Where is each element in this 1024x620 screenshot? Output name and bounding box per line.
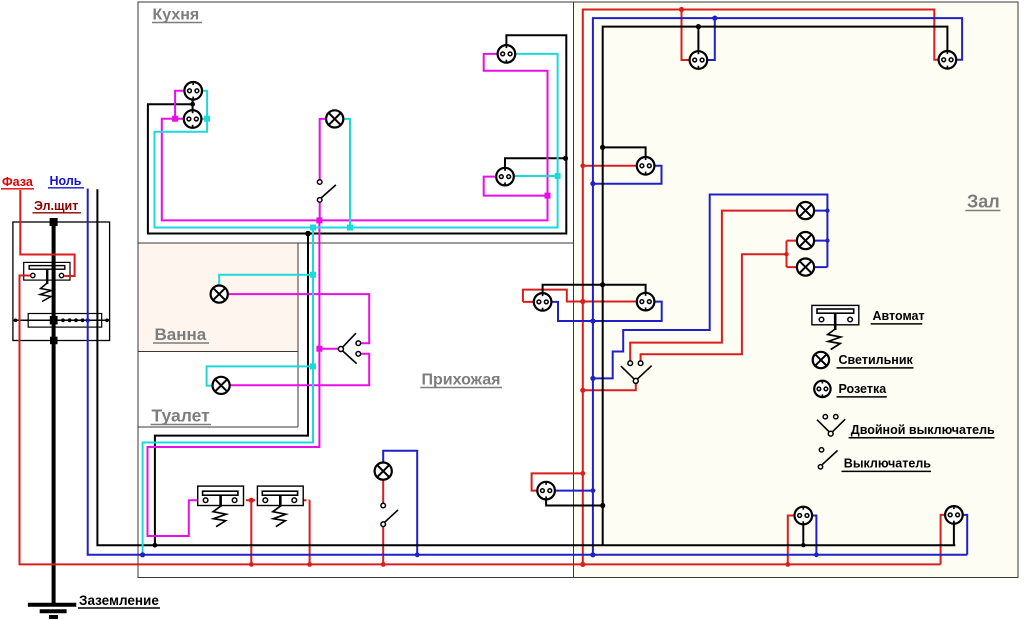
lamp Зал 3 [797,259,814,276]
ROOM-BORDERS [138,2,1018,578]
node junctions black [153,24,806,548]
socket Z2 (Зал top right) [939,51,957,69]
legend lamp symbol [813,352,829,368]
socket K2 (kitchen left bottom) [184,110,202,128]
ground terminal square box bottom [50,337,58,345]
wire null riser to top middle socket [707,18,714,60]
svg-text:Ванна: Ванна [155,325,207,344]
wire phase tap to hallway bottom socket [532,473,583,490]
svg-text:Светильник: Светильник [839,353,914,367]
wire ground kitchen socket S4 [505,158,566,168]
wire ground to sockets H1 H2 [543,285,646,294]
label Ноль [48,174,84,188]
wire phase-kitchen lamp switch [320,119,326,220]
wire ground main riser Зал and top run [603,27,948,546]
wire phase-kitchen socket pair and long loop [162,54,548,221]
socket Z5 (Зал bottom right) [945,506,963,524]
wire phase riser to top middle socket [682,10,690,61]
lamp Зал 1 [797,202,814,219]
wire phase to toilet lamp [230,354,370,385]
label Фаза [1,175,34,189]
node junctions magenta [172,116,550,352]
wire ground risers bottom sockets [803,524,954,546]
distribution board box Эл.щит [13,222,110,341]
wire phase main riser Зал and top run [583,10,939,565]
wall toilet bottom [138,426,298,428]
label Прихожая [420,372,502,389]
wire ground drop to top middle socket [697,27,699,52]
lamp bath [211,286,228,303]
socket K4 (kitchen right bottom) [496,168,514,186]
wire phase-bath main riser to bottom breaker [148,220,320,536]
breaker U1 (in panel) [24,262,70,301]
svg-text:Розетка: Розетка [839,382,888,396]
wire phase tap to sockets H1 H2 [523,290,637,302]
wire null to toilet lamp [207,366,313,385]
wire phase risers to bottom sockets [788,515,946,565]
wire ground to socket SZ3 [603,147,646,157]
wire null to bath lamp [219,275,313,286]
svg-text:Двойной выключатель: Двойной выключатель [851,423,995,437]
double switch hallway (bath/toilet lamps) [338,333,360,363]
wire ground bus from panel along bottom [97,189,955,545]
wire phase-kitchen socket S4 branch [484,177,548,196]
socket Z3 (Зал left) [637,157,655,175]
label Заземление [78,593,160,608]
wall divider hallway/Зал [573,2,575,578]
wire phase drop from Фаза label to breaker input [20,190,74,276]
wall kitchen bottom [138,242,574,244]
wire null return from sockets H1 H2 [551,302,662,321]
legend label Розетка [837,382,888,397]
socket K1 (kitchen left top) [184,82,202,100]
svg-text:Выключатель: Выключатель [844,457,931,471]
node junctions red [249,7,790,567]
switch kitchen [317,180,335,203]
lamp toilet [213,377,230,394]
wire ground kitchen loop [148,35,566,233]
wire null-bath riser to null bus [143,228,313,555]
socket H1 (hallway mid-left) [534,293,552,311]
socket Z4 (Зал bottom left) [795,507,813,525]
legend label Выключатель [842,457,932,472]
svg-text:Фаза: Фаза [2,175,34,189]
socket K3 (kitchen right top) [498,45,516,63]
svg-text:Кухня: Кухня [153,7,200,24]
svg-text:Прихожая: Прихожая [422,372,501,389]
legend label Автомат [871,309,925,324]
legend switch symbol [818,448,837,469]
label Ванна [153,325,209,344]
room Ванна background [138,243,298,352]
wall bath/toilet right [297,243,299,427]
legend label Светильник [837,353,914,368]
ground main conductor (thick) [52,219,56,605]
svg-text:Зал: Зал [967,192,1000,212]
wire null main riser Зал and top run [593,18,962,555]
lamp hallway [375,463,392,480]
svg-text:Ноль: Ноль [50,174,82,188]
legend label Двойной выключатель [849,423,995,438]
wire phase to Зал lamp 1 [630,211,797,361]
apartment outer border [138,2,1018,578]
socket Z1 (Зал top middle) [690,51,708,69]
wire phase tap to hallway socket row [583,165,637,167]
wire phase to bath lamp [228,294,370,343]
legend breaker symbol [812,305,859,349]
ground terminal square top [50,218,58,226]
LEGEND [812,305,995,471]
node junctions cyan [204,116,560,370]
wire phase hallway lamp switch [382,480,384,565]
wire null return from hallway lamp [383,451,417,555]
label Туалет [151,406,212,426]
socket H2 (hallway mid-right) [637,293,655,311]
node junctions blue [140,16,830,558]
wire phase from breaker output down left side and bottom phase bus [20,276,941,565]
room Зал background [574,2,1019,578]
svg-text:Эл.щит: Эл.щит [34,199,78,213]
wire ground riser toilet-kitchen [155,234,308,546]
svg-text:Туалет: Туалет [152,406,211,426]
ROOMS-BACKGROUNDS [138,2,1018,578]
socket H3 (hallway bottom) [537,482,555,500]
legend socket symbol [814,381,830,397]
wire phase riser to bottom breakers [250,500,252,564]
wire null return from hallway bottom socket [555,490,593,492]
wire null return from Зал lamp group [593,195,828,379]
wire null risers from bottom sockets [812,515,967,555]
wire phase from right bottom breaker to bus [298,499,310,501]
wire phase tap to Зал double switch common [583,384,636,391]
wire null-kitchen socket S4 branch [514,175,558,177]
wire null drop from Ноль label and bottom null bus [88,189,968,555]
label Эл.щит [33,199,82,213]
wire phase to Зал lamps 2,3 [641,241,797,361]
wall bath/toilet divider [138,350,298,352]
wire ground from hallway bottom socket [546,499,603,505]
lamp Зал 2 [797,232,814,249]
wire null return from socket SZ3 [593,166,662,184]
PANEL [13,218,110,617]
label Кухня [152,7,202,24]
breaker Q1 (bottom left) [198,486,244,527]
label Зал [965,192,1000,212]
bus bar (null/ground block) [14,314,110,328]
double switch Зал (3 lamps) [621,361,652,383]
ground symbol (earth) [28,605,76,617]
wire null-kitchen socket pair and long loop [155,54,558,228]
wire phase tap to hallway double switch [319,348,338,350]
legend double switch symbol [817,415,845,437]
svg-text:Заземление: Заземление [79,593,159,608]
wire null-kitchen lamp [343,119,350,228]
switch hallway [381,503,398,526]
node blue at bus bar [86,318,90,322]
lamp kitchen [326,110,343,127]
breaker Q2 (bottom right) [257,486,303,527]
svg-text:Автомат: Автомат [873,309,925,323]
